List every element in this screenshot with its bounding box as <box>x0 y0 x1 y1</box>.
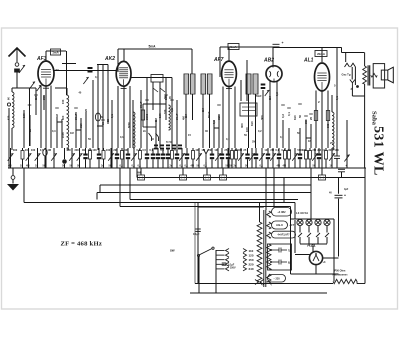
svg-text:1M: 1M <box>55 113 59 118</box>
svg-text:1M: 1M <box>214 148 218 152</box>
svg-text:HALO: HALO <box>276 224 283 227</box>
svg-text:+: + <box>282 41 284 45</box>
svg-text:0,1: 0,1 <box>132 165 136 168</box>
svg-text:300: 300 <box>240 123 244 128</box>
svg-text:4μF: 4μF <box>344 188 349 191</box>
svg-text:AZ1: AZ1 <box>306 243 316 248</box>
svg-text:0,5: 0,5 <box>212 120 216 124</box>
svg-text:Saba: Saba <box>371 111 378 126</box>
svg-text:100: 100 <box>264 148 269 152</box>
svg-text:0,5: 0,5 <box>321 148 325 152</box>
svg-text:0,1μF: 0,1μF <box>193 233 200 236</box>
svg-text:0,1: 0,1 <box>110 114 114 118</box>
svg-text:2M: 2M <box>113 148 117 152</box>
svg-text:100: 100 <box>25 148 30 152</box>
svg-text:240: 240 <box>249 267 254 271</box>
svg-text:1M: 1M <box>70 131 74 135</box>
svg-text:0,1: 0,1 <box>185 165 189 168</box>
svg-text:250V: 250V <box>230 267 236 270</box>
svg-text:50: 50 <box>298 114 302 118</box>
svg-text:4M: 4M <box>277 165 280 168</box>
svg-text:300: 300 <box>13 148 18 152</box>
svg-text:50 50: 50 50 <box>166 142 172 144</box>
svg-text:2n: 2n <box>143 129 146 133</box>
svg-text:1mA: 1mA <box>230 45 237 49</box>
svg-text:220: 220 <box>249 263 254 267</box>
svg-text:531 WL: 531 WL <box>371 126 386 176</box>
svg-text:+: + <box>344 194 346 198</box>
svg-text:0,1: 0,1 <box>226 137 230 141</box>
svg-text:5mA: 5mA <box>149 45 157 49</box>
svg-text:110: 110 <box>249 249 254 253</box>
svg-text:20mA: 20mA <box>317 52 326 56</box>
svg-text:50nF: 50nF <box>256 95 262 98</box>
svg-text:125: 125 <box>249 253 254 257</box>
svg-text:Gez Tg: Gez Tg <box>342 73 351 77</box>
svg-text:sw: sw <box>170 249 175 253</box>
svg-text:7): 7) <box>288 251 290 253</box>
svg-text:100: 100 <box>158 113 162 118</box>
svg-text:0,1: 0,1 <box>138 165 142 168</box>
svg-text:4M: 4M <box>47 148 51 152</box>
svg-text:300: 300 <box>42 95 46 100</box>
svg-text:6000: 6000 <box>127 122 131 128</box>
svg-text:50nF: 50nF <box>175 113 179 120</box>
svg-text:1mA: 1mA <box>52 51 59 55</box>
svg-text:4M: 4M <box>8 165 11 168</box>
svg-text:0,1: 0,1 <box>335 96 339 100</box>
svg-text:25: 25 <box>309 116 313 120</box>
svg-text:1M: 1M <box>308 139 312 143</box>
svg-text:100: 100 <box>245 127 249 132</box>
svg-text:2M: 2M <box>268 95 272 100</box>
svg-text:25: 25 <box>60 118 64 122</box>
svg-text:4M: 4M <box>191 165 194 168</box>
svg-text:4M: 4M <box>67 148 71 152</box>
svg-text:610: 610 <box>79 123 83 128</box>
svg-text:2n: 2n <box>101 165 104 168</box>
svg-text:310: 310 <box>163 109 167 114</box>
svg-text:ZF = 468 kHz: ZF = 468 kHz <box>61 240 103 247</box>
svg-text:AF3: AF3 <box>36 56 47 62</box>
svg-text:0,1: 0,1 <box>180 165 184 168</box>
svg-text:0,1: 0,1 <box>120 165 124 168</box>
svg-text:0,2: 0,2 <box>258 129 262 133</box>
svg-text:25: 25 <box>84 108 88 112</box>
svg-text:5000: 5000 <box>145 113 149 120</box>
svg-text:2M: 2M <box>201 107 205 112</box>
svg-text:0,1: 0,1 <box>280 135 284 139</box>
svg-text:+: + <box>346 164 348 168</box>
svg-text:~ 220: ~ 220 <box>273 277 280 280</box>
svg-text:100: 100 <box>106 148 111 152</box>
svg-text:4×AF3,AF7: 4×AF3,AF7 <box>278 234 291 237</box>
svg-text:535: 535 <box>326 123 330 128</box>
svg-text:L3 4Ω 5A: L3 4Ω 5A <box>296 211 308 215</box>
svg-text:0,1: 0,1 <box>287 112 291 116</box>
svg-text:2M: 2M <box>184 113 188 118</box>
svg-text:0,1: 0,1 <box>120 135 124 139</box>
svg-text:AK2: AK2 <box>104 56 115 62</box>
svg-text:610: 610 <box>217 115 221 120</box>
svg-text:300: 300 <box>260 115 264 120</box>
svg-text:0,5: 0,5 <box>275 92 279 96</box>
svg-text:2M: 2M <box>34 95 38 100</box>
svg-text:2n: 2n <box>170 165 173 168</box>
svg-text:4M: 4M <box>124 148 128 152</box>
svg-text:25: 25 <box>28 128 32 132</box>
svg-text:HEIZWIDERST.: HEIZWIDERST. <box>333 275 349 277</box>
svg-text:150: 150 <box>249 258 254 262</box>
svg-text:0,5: 0,5 <box>142 148 146 152</box>
svg-text:50: 50 <box>101 121 105 125</box>
svg-text:0,1: 0,1 <box>204 165 208 168</box>
svg-text:AL1: AL1 <box>303 58 314 64</box>
svg-text:AB2: AB2 <box>263 58 274 64</box>
svg-text:2M: 2M <box>252 141 255 144</box>
svg-text:2M: 2M <box>208 148 212 152</box>
svg-text:100: 100 <box>22 113 26 118</box>
svg-text:4M: 4M <box>26 165 29 168</box>
svg-text:4M: 4M <box>283 165 286 168</box>
svg-text:610: 610 <box>293 115 297 120</box>
svg-text:0,3: 0,3 <box>52 129 56 133</box>
svg-text:610: 610 <box>250 121 254 126</box>
svg-text:4M: 4M <box>195 148 199 152</box>
svg-text:50nF: 50nF <box>74 113 78 120</box>
svg-text:100: 100 <box>92 148 97 152</box>
svg-text:0,1: 0,1 <box>260 165 264 168</box>
svg-text:AF7: AF7 <box>213 57 224 63</box>
svg-text:100: 100 <box>31 148 36 152</box>
svg-text:2n: 2n <box>234 165 237 168</box>
svg-text:0,1: 0,1 <box>95 75 99 79</box>
svg-text:P50 Ohm: P50 Ohm <box>335 270 347 273</box>
svg-text:50nF: 50nF <box>139 101 143 108</box>
svg-text:4M: 4M <box>82 148 86 152</box>
svg-text:300: 300 <box>328 148 333 152</box>
svg-text:50nF: 50nF <box>207 111 211 118</box>
svg-text:8): 8) <box>288 263 290 265</box>
svg-text:150: 150 <box>61 99 65 104</box>
svg-text:100: 100 <box>164 95 168 100</box>
svg-text:0,2: 0,2 <box>281 114 285 118</box>
svg-text:0,2: 0,2 <box>170 108 174 112</box>
svg-text:300: 300 <box>304 119 308 124</box>
svg-text:+4 4B2: +4 4B2 <box>277 211 286 214</box>
svg-text:4Mr: 4Mr <box>137 171 142 175</box>
svg-text:300: 300 <box>74 148 79 152</box>
